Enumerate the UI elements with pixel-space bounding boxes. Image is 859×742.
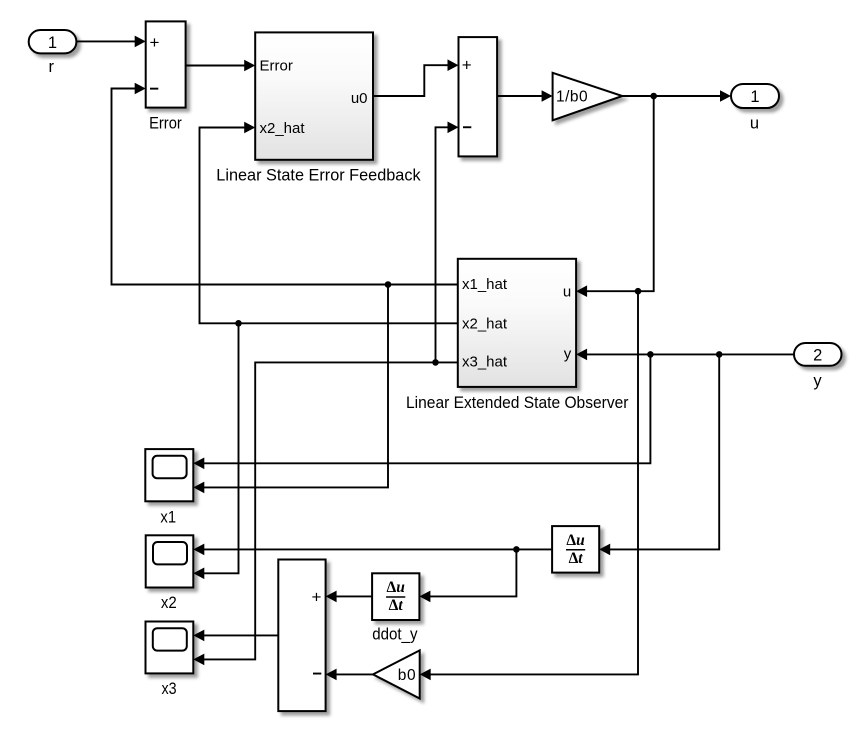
svg-text:u: u <box>563 283 571 300</box>
inport 2 y <box>794 343 842 366</box>
svg-text:2: 2 <box>813 346 822 364</box>
wire bottom sum output to x3 scope input 1 <box>193 630 278 642</box>
svg-text:Linear State Error Feedback: Linear State Error Feedback <box>216 167 421 185</box>
wire x1_hat feedback to Error sum - input <box>112 83 458 285</box>
svg-text:x1: x1 <box>160 509 176 527</box>
wire gain 1/b0 to outport u <box>622 90 731 102</box>
outport 1 u <box>731 84 779 108</box>
svg-text:x2_hat: x2_hat <box>260 120 306 137</box>
wire inport y to observer y input <box>576 349 794 361</box>
svg-text:Δu: Δu <box>566 532 585 549</box>
scope x3 <box>146 622 194 674</box>
wire y to derivative input <box>599 354 719 555</box>
node junction ydot branch <box>513 546 520 553</box>
svg-text:+: + <box>312 587 322 606</box>
scope x2 <box>146 535 194 587</box>
node junction u feedback branch <box>635 288 642 295</box>
wire y to x1 scope input 1 <box>193 354 650 469</box>
scope x1 <box>145 449 193 501</box>
svg-text:u: u <box>750 115 759 133</box>
sum block Error <box>146 21 186 107</box>
svg-text:Linear Extended State Observer: Linear Extended State Observer <box>406 394 629 412</box>
node junction y branch 2 <box>716 351 723 358</box>
wire gain b0 output to bottom sum - input <box>326 669 373 681</box>
derivative block du/dt <box>552 526 599 573</box>
wire x2_hat branch to x2 scope input 2 <box>193 323 238 579</box>
wire x3_hat to x3 scope input 2 <box>193 362 458 665</box>
svg-text:x3: x3 <box>162 680 177 698</box>
svg-text:u0: u0 <box>351 90 368 107</box>
wire x2_hat feedback to LSEF x2_hat input <box>200 122 458 324</box>
subsystem Linear Extended State Observer <box>458 259 576 387</box>
wire Error sum output to LSEF Error input <box>186 60 256 72</box>
svg-text:x3_hat: x3_hat <box>462 354 508 371</box>
node junction y branch 1 <box>647 351 654 358</box>
gain b0 (flipped) <box>373 650 420 698</box>
svg-text:Δu: Δu <box>387 579 406 596</box>
svg-text:r: r <box>49 58 55 76</box>
derivative block ddot_y <box>372 573 419 620</box>
subsystem Linear State Error Feedback <box>255 32 373 159</box>
svg-text:1: 1 <box>48 34 57 52</box>
wire u feedback to observer u input <box>576 96 654 297</box>
svg-text:1/b0: 1/b0 <box>556 89 588 106</box>
svg-text:y: y <box>813 372 822 390</box>
svg-text:Δt: Δt <box>569 550 584 567</box>
wire ydot to ddot_y input <box>419 549 516 602</box>
svg-text:x2: x2 <box>161 594 177 612</box>
svg-text:x2_hat: x2_hat <box>462 316 508 333</box>
wire r to Error sum + input <box>76 36 145 48</box>
svg-text:x1_hat: x1_hat <box>462 276 508 293</box>
svg-text:Error: Error <box>149 115 182 133</box>
svg-text:Error: Error <box>260 58 293 75</box>
node junction x3_hat branch <box>432 359 439 366</box>
svg-text:+: + <box>150 33 160 52</box>
svg-text:y: y <box>564 346 572 363</box>
sum block bottom (flipped) <box>278 560 325 712</box>
svg-text:+: + <box>462 56 472 75</box>
node junction x2_hat branch <box>235 320 242 327</box>
wire x3_hat branch to sum2 - input <box>436 122 459 363</box>
wire u0 to sum2 + input <box>373 59 459 96</box>
wire ddot_y output to bottom sum + input <box>326 591 373 603</box>
gain 1/b0 <box>553 73 623 121</box>
node junction x1_hat branch <box>385 281 392 288</box>
wire derivative output to x2 scope input 1 <box>193 544 552 556</box>
wire sum2 output to gain 1/b0 <box>497 90 552 102</box>
svg-text:b0: b0 <box>398 667 416 684</box>
inport 1 r <box>29 30 77 53</box>
sum block sum2 <box>459 37 498 156</box>
node junction u <box>650 93 657 100</box>
svg-text:ddot_y: ddot_y <box>372 625 418 643</box>
wire u to gain b0 input <box>420 291 638 680</box>
svg-text:Δt: Δt <box>389 597 404 614</box>
wire x1_hat branch to x1 scope input 2 <box>193 285 388 494</box>
svg-text:1: 1 <box>750 88 759 106</box>
